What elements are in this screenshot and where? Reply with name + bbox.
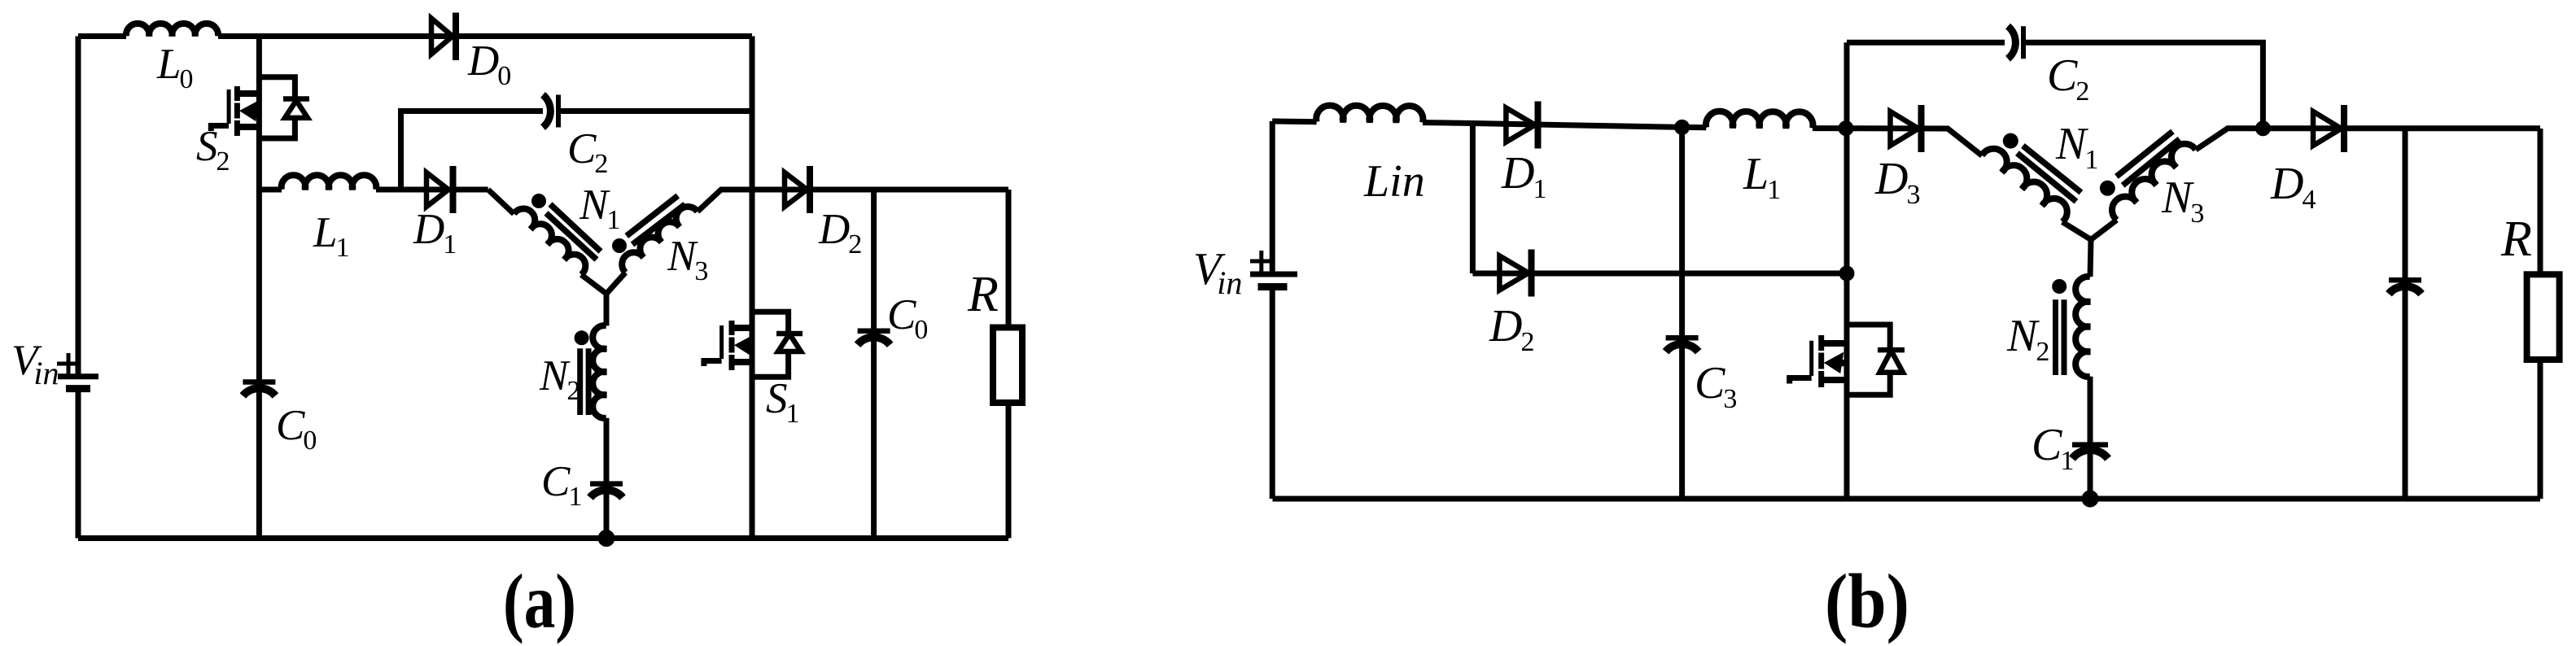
svg-text:D2: D2 — [818, 206, 862, 260]
wire D2 line (b) — [1472, 271, 1847, 277]
svg-text:D4: D4 — [2270, 159, 2316, 215]
svg-text:C0: C0 — [887, 291, 928, 345]
wire diagonal into N1 (a) — [488, 190, 514, 214]
core bars N3 (a) — [627, 196, 685, 245]
dot N2 (a) — [575, 330, 589, 345]
diode D3 — [1891, 105, 1922, 152]
capacitor C0 (output side a) — [858, 190, 890, 539]
inductor Lin — [1316, 106, 1423, 123]
wire center to N3 (a) — [606, 273, 625, 294]
node C1 bottom (a) — [598, 530, 615, 547]
wire C2 branch — [401, 111, 753, 190]
diode D1 — [426, 166, 453, 213]
wire bottom rail (a) — [78, 535, 1008, 541]
wire right vertical (a) — [750, 37, 755, 539]
winding N3 (b) — [2112, 144, 2196, 220]
svg-text:Vin: Vin — [1193, 244, 1242, 301]
node D2 out (b) — [1839, 266, 1855, 282]
dot N3 (a) — [612, 238, 627, 253]
winding N1 (b) — [1982, 149, 2067, 222]
wire N1 to center (b) — [2062, 222, 2091, 240]
svg-text:N2: N2 — [2006, 311, 2049, 367]
svg-text:R: R — [967, 267, 999, 322]
mosfet S2 — [211, 77, 309, 138]
svg-text:S2: S2 — [196, 123, 230, 177]
wire N2 to C1 (b) — [2088, 377, 2093, 499]
svg-text:(a): (a) — [503, 558, 576, 644]
wire left rail (b) — [1270, 121, 1275, 499]
wire top rail (a) — [78, 33, 752, 39]
wire D1/D2 branch vertical (b) — [1470, 124, 1476, 274]
svg-text:C0: C0 — [276, 402, 317, 456]
svg-text:D1: D1 — [1501, 148, 1546, 204]
wire left rail (a) — [76, 37, 81, 539]
diode D2 (a) — [785, 166, 810, 213]
battery Vin (b) — [1250, 251, 1297, 287]
mosfet Q (b) — [1790, 325, 1905, 395]
dot N3 (b) — [2100, 181, 2115, 196]
inductor L0 — [126, 24, 218, 37]
wire S2 / C0 vertical — [256, 37, 262, 539]
capacitor C2 (a) — [543, 95, 558, 128]
wire C2/mosfet vertical (b) — [1844, 42, 1850, 499]
mosfet S1 — [704, 312, 803, 377]
svg-text:N1: N1 — [579, 181, 620, 235]
wire L1 line — [259, 187, 488, 193]
diode D0 — [431, 13, 456, 61]
inductor L1 — [282, 175, 377, 190]
capacitor C2 (b) — [2008, 26, 2023, 59]
wire N2 to C1 (a) — [604, 418, 610, 539]
node D1 out (b) — [1674, 120, 1690, 135]
svg-text:R: R — [2500, 212, 2532, 267]
inductor L1 (b) — [1706, 111, 1813, 129]
resistor R (b) — [2527, 129, 2560, 499]
wire C2 top line (b) — [1847, 42, 2263, 129]
winding N2 (a) — [593, 294, 606, 418]
wire N1 to center (a) — [581, 275, 606, 294]
battery Vin (a) — [57, 353, 98, 389]
capacitor output (b) — [2389, 129, 2421, 499]
capacitor C0 (input side) — [243, 382, 275, 396]
node L1 out (b) — [1839, 120, 1854, 136]
wire N3 to D4 line (b) — [2196, 129, 2540, 150]
svg-text:(b): (b) — [1825, 558, 1909, 644]
svg-text:C1: C1 — [541, 458, 582, 512]
capacitor C3 branch — [1666, 127, 1699, 499]
svg-text:Vin: Vin — [11, 337, 59, 391]
winding N2 (b) — [2075, 240, 2091, 377]
node C1 bottom (b) — [2082, 491, 2099, 508]
wire bottom rail (b) — [1273, 496, 2541, 502]
svg-text:L1: L1 — [1743, 149, 1781, 205]
svg-text:N1: N1 — [2055, 119, 2098, 175]
svg-text:N3: N3 — [667, 233, 708, 286]
dot N2 (b) — [2052, 279, 2066, 294]
svg-text:C3: C3 — [1695, 358, 1737, 414]
svg-text:C1: C1 — [2031, 420, 2074, 476]
dot N1 (b) — [2003, 133, 2018, 149]
node C2 right (b) — [2255, 120, 2271, 136]
svg-text:D3: D3 — [1874, 154, 1920, 210]
dot N1 (a) — [531, 194, 546, 208]
svg-text:N2: N2 — [539, 352, 580, 406]
capacitor C1 (b) — [2072, 445, 2108, 459]
wire main line (b) — [1272, 121, 1982, 155]
resistor R (a) — [993, 190, 1022, 539]
svg-text:D2: D2 — [1489, 301, 1534, 357]
winding N1 (a) — [514, 209, 585, 275]
svg-text:C2: C2 — [567, 125, 608, 179]
core bars N1 (a) — [546, 204, 601, 260]
svg-text:D0: D0 — [467, 37, 511, 91]
svg-text:L1: L1 — [313, 209, 349, 263]
winding N3 (a) — [622, 207, 698, 273]
svg-text:L0: L0 — [156, 41, 193, 94]
core bars N3 (b) — [2116, 132, 2180, 186]
capacitor C1 (a) — [590, 484, 623, 498]
core bars N2 (a) — [580, 348, 588, 415]
svg-text:S1: S1 — [766, 375, 800, 429]
svg-text:D1: D1 — [413, 206, 457, 260]
wire center to N3 (b) — [2091, 220, 2117, 239]
diode D2 (b) — [1499, 250, 1531, 297]
diode D1 (b) — [1506, 102, 1537, 149]
core bars N1 (b) — [2017, 146, 2081, 202]
svg-text:C2: C2 — [2047, 50, 2089, 107]
wire N3 to D2 line (a) — [698, 190, 1008, 212]
core bars N2 (b) — [2056, 299, 2065, 375]
svg-text:N3: N3 — [2161, 172, 2204, 229]
svg-text:Lin: Lin — [1363, 156, 1425, 207]
diode D4 — [2313, 105, 2344, 152]
